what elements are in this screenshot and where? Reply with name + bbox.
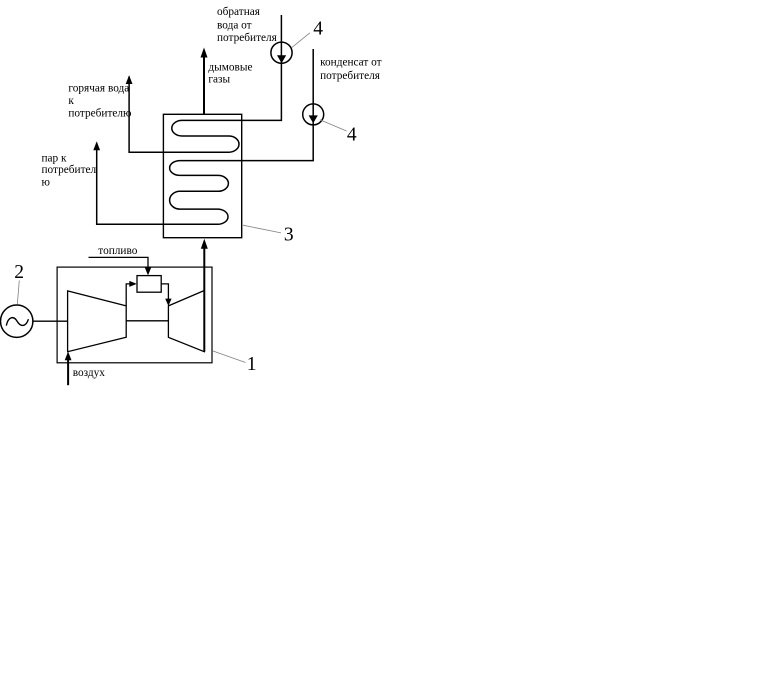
arrowhead: steam up (93, 141, 100, 150)
arrowhead: hot water up (126, 75, 133, 84)
svg-text:газы: газы (208, 74, 230, 86)
generator sine wave (6, 318, 28, 326)
wire: turbine exhaust to heat exchanger (203, 248, 205, 352)
svg-text:обратная: обратная (217, 6, 260, 18)
svg-text:дымовые: дымовые (208, 61, 252, 73)
svg-text:1: 1 (247, 354, 257, 375)
svg-text:потребител: потребител (42, 164, 97, 176)
generator G circle 2 (1, 305, 33, 337)
arrowhead: fuel into CC (145, 268, 151, 276)
combustion chamber (137, 276, 161, 293)
compressor K (68, 291, 127, 352)
wire: flue gas stack arrow (203, 57, 205, 115)
arrowhead: into CC (129, 281, 137, 287)
pump P2 circle (303, 104, 324, 125)
wire: generator shaft (33, 320, 68, 322)
arrowhead: air up (65, 352, 72, 361)
svg-text:потребителя: потребителя (320, 70, 380, 82)
svg-text:горячая вода: горячая вода (68, 83, 129, 95)
pump P1 circle (271, 42, 292, 63)
pump P1 arrow (277, 55, 286, 63)
svg-text:потребителя: потребителя (217, 32, 277, 44)
wire: condensate pipe + lower coil + steam outlet (97, 49, 314, 224)
svg-text:к: к (68, 95, 74, 107)
wire: air inlet arrow (67, 359, 69, 385)
svg-text:потребителю: потребителю (68, 108, 132, 120)
wire: CC to turbine (161, 284, 168, 299)
wire: compressor to combustion chamber (126, 284, 130, 306)
svg-text:ю: ю (42, 176, 51, 188)
leader line to label 3 (243, 225, 281, 233)
svg-text:топливо: топливо (98, 245, 137, 257)
wire: return water pipe + upper coil + hot water outlet (129, 15, 281, 152)
arrowhead: exhaust up into HE (201, 239, 208, 249)
pump P2 arrow (309, 115, 318, 123)
svg-text:2: 2 (14, 262, 24, 283)
svg-text:воздух: воздух (73, 367, 106, 379)
heat exchanger body 3 (163, 114, 241, 237)
gas turbine unit frame 1 (57, 267, 212, 363)
svg-text:пар к: пар к (42, 153, 68, 165)
leader line to label 1 (212, 351, 245, 363)
svg-text:вода от: вода от (217, 19, 252, 31)
wire: shaft between compressor and turbine (126, 320, 168, 322)
arrowhead: into turbine (165, 299, 171, 306)
wire: fuel line (89, 257, 149, 268)
svg-text:4: 4 (347, 124, 357, 145)
turbine T (168, 291, 204, 352)
leader line to label 4 upper (292, 33, 310, 48)
leader line to label 2 (17, 281, 19, 305)
leader line to label 4 lower (320, 120, 347, 131)
arrowhead: flue gas up (201, 48, 208, 58)
svg-text:3: 3 (284, 225, 294, 246)
svg-text:конденсат от: конденсат от (320, 56, 382, 68)
svg-text:4: 4 (313, 18, 323, 39)
